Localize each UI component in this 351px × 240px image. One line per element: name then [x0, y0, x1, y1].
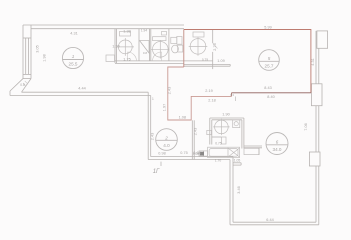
- svg-text:1.05: 1.05: [234, 158, 241, 162]
- svg-text:4.31: 4.31: [311, 58, 315, 65]
- svg-text:2: 2: [164, 136, 168, 141]
- svg-text:34.0: 34.0: [273, 147, 282, 152]
- svg-text:4.0: 4.0: [163, 143, 170, 148]
- svg-text:6: 6: [276, 140, 279, 145]
- svg-text:0.08: 0.08: [193, 152, 199, 156]
- svg-text:0.98: 0.98: [158, 152, 165, 156]
- svg-text:5: 5: [268, 56, 271, 61]
- svg-text:1Г: 1Г: [153, 169, 160, 175]
- svg-text:2.18: 2.18: [208, 99, 215, 103]
- svg-text:4.44: 4.44: [78, 87, 85, 91]
- svg-text:0.8: 0.8: [143, 51, 148, 55]
- svg-text:25.7: 25.7: [265, 64, 274, 69]
- svg-text:7.06: 7.06: [304, 123, 308, 130]
- svg-text:8.40: 8.40: [267, 95, 274, 99]
- svg-text:1: 1: [72, 54, 75, 59]
- svg-text:8.43: 8.43: [264, 86, 271, 90]
- svg-text:3.05: 3.05: [36, 45, 40, 52]
- svg-text:0.75: 0.75: [202, 58, 208, 62]
- svg-text:1.97: 1.97: [162, 104, 166, 111]
- svg-text:1.30: 1.30: [112, 45, 119, 49]
- svg-text:2.43: 2.43: [168, 87, 172, 94]
- svg-text:1.90: 1.90: [222, 112, 229, 116]
- svg-text:25.5: 25.5: [69, 62, 78, 67]
- svg-text:4.31: 4.31: [70, 32, 77, 36]
- svg-text:1.09: 1.09: [217, 59, 224, 63]
- svg-text:0.75: 0.75: [215, 142, 222, 146]
- svg-text:0.8: 0.8: [20, 83, 25, 87]
- svg-text:0.75: 0.75: [180, 151, 187, 155]
- svg-text:1.98: 1.98: [43, 54, 47, 61]
- svg-text:2.75: 2.75: [213, 43, 217, 50]
- svg-text:0.3: 0.3: [230, 93, 234, 97]
- svg-text:1.70: 1.70: [215, 159, 222, 163]
- svg-text:1.38: 1.38: [123, 30, 130, 34]
- svg-text:1.75: 1.75: [123, 58, 130, 62]
- svg-text:3.46: 3.46: [237, 186, 241, 193]
- svg-text:2.43: 2.43: [150, 133, 154, 140]
- svg-text:1.08: 1.08: [179, 115, 186, 119]
- svg-text:2.19: 2.19: [205, 89, 212, 93]
- svg-text:1.94: 1.94: [141, 29, 147, 33]
- svg-text:2.43: 2.43: [194, 128, 198, 135]
- svg-text:5.99: 5.99: [264, 26, 271, 30]
- svg-text:1: 1: [152, 97, 154, 101]
- svg-text:6.44: 6.44: [266, 218, 273, 222]
